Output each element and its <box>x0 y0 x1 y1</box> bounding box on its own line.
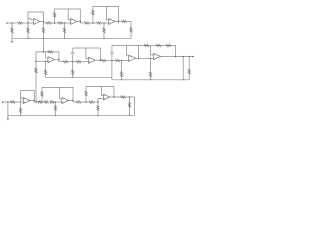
node rail-1 junction d <box>103 38 104 39</box>
resistor R7 (U3 feedback leg) <box>92 10 94 23</box>
resistor R30 (shunt at U8 in) <box>20 102 22 115</box>
node rail-1 junction a <box>27 38 28 39</box>
node N1 junction <box>11 22 13 24</box>
resistor R2 <box>46 22 51 24</box>
node N28 junction <box>85 101 87 103</box>
wire U2 feedback top <box>55 9 81 23</box>
node IN1 (row-1 input terminal) <box>6 22 8 24</box>
node N29 junction <box>97 101 99 103</box>
wire R4 to U2 <box>63 22 71 24</box>
resistor R27 (shunt) <box>150 58 152 80</box>
resistor R9 (shunt) <box>103 23 105 38</box>
resistor R9 zigzag <box>103 28 105 33</box>
node N20 junction <box>182 56 184 58</box>
wire N23 to R31 <box>34 101 37 103</box>
node N21 junction <box>188 56 190 58</box>
resistor R15 (in U4 feedback) <box>48 51 53 53</box>
op-amp U1 <box>34 18 40 24</box>
resistor R25 (feedback) <box>156 44 161 46</box>
wire N29 to U10 <box>98 99 103 102</box>
resistor R12 (shunt at N1) <box>11 23 13 38</box>
resistor R34 <box>50 101 54 103</box>
wire N16 shunt <box>111 61 113 78</box>
wire R1 to U1 <box>22 22 33 24</box>
wire U8 feedback box <box>21 91 35 102</box>
wire row-3 bottom rail <box>8 114 135 116</box>
node rail-3 junction b <box>55 115 56 116</box>
node rail-1 junction c <box>64 38 65 39</box>
wire U1 inv jog <box>28 18 34 20</box>
node rail-3 junction c <box>97 115 98 116</box>
resistor R18 <box>63 61 68 63</box>
wire R23 to U6 <box>120 60 129 62</box>
wire R36 to R38 <box>81 101 89 103</box>
node N3 junction (U1 out) <box>43 21 45 23</box>
resistor R8 <box>97 22 102 24</box>
wire row-3 end drop <box>134 97 136 115</box>
wire N23 step <box>33 101 35 103</box>
resistor R16 (link row2-row3) <box>35 61 37 102</box>
resistor R23 <box>115 59 120 61</box>
wire R31 to N25 <box>42 101 44 103</box>
resistor R41 (shunt) <box>129 97 131 115</box>
node N11 junction <box>35 61 37 63</box>
wire U7 inv input <box>151 46 154 55</box>
wire N15 to R21 <box>99 60 102 62</box>
resistor R12 zigzag <box>11 28 13 33</box>
node N17 junction (U6 out) <box>138 58 140 60</box>
node N10 junction (link arrives) <box>43 51 45 53</box>
resistor R11 zigzag <box>130 27 132 32</box>
node OUT2 terminal <box>192 56 194 58</box>
wire U1 feedback box <box>28 12 43 23</box>
op-amp U7 <box>153 53 161 59</box>
resistor R22 (shunt) <box>121 61 123 80</box>
op-amp U3 <box>109 18 115 24</box>
wire N22 shunt <box>7 102 9 115</box>
resistor R28 (shunt) <box>188 57 190 80</box>
resistor R3 zigzag <box>54 13 56 18</box>
wire U4 inv input <box>46 52 48 58</box>
resistor R39 (shunt) <box>97 102 99 115</box>
resistor R35 (shunt) <box>54 102 56 115</box>
node N4 junction <box>54 22 56 24</box>
node N8 junction <box>103 22 105 24</box>
capacitor C1 (in U5 feedback leg) <box>71 48 74 62</box>
wire U5 feedback top <box>73 48 101 60</box>
wire U9 inv input <box>60 87 62 99</box>
op-amp U8 <box>23 97 30 103</box>
wire U8 inv jog <box>21 97 24 99</box>
wire U4 output <box>55 59 59 61</box>
wire R38 to N29 <box>94 101 98 103</box>
op-amp U10 <box>103 94 109 100</box>
node N6 junction (U2 out) <box>80 21 82 23</box>
resistor R5 zigzag <box>63 28 65 33</box>
resistor R30 zigzag <box>20 108 22 113</box>
wire row-2 rail left <box>46 76 112 78</box>
node N5 junction <box>64 22 66 24</box>
op-amp U9 <box>62 97 69 103</box>
node N27 junction (U9 out) <box>72 100 74 102</box>
wire N13 to R18 <box>59 61 63 63</box>
resistor R38 <box>89 101 93 103</box>
resistor R10 <box>122 20 127 22</box>
resistor R13 zigzag <box>27 28 29 33</box>
wire U9 feedback top <box>42 87 73 100</box>
wire U10 feedback top <box>86 87 114 98</box>
resistor R17 (shunt) <box>45 61 47 77</box>
wire U8 output <box>30 100 34 102</box>
node N22 junction <box>7 101 8 103</box>
node rail-2 junction b <box>121 79 122 80</box>
resistor R32 (U9 feedback leg) <box>41 87 43 102</box>
resistor R13 (shunt at N2) <box>27 23 29 38</box>
ground arrow row-3 <box>7 115 10 120</box>
wire N15 step <box>99 59 101 61</box>
op-amp U6 <box>129 55 136 61</box>
resistor R14 zigzag <box>42 28 44 33</box>
wire U7 output <box>161 56 193 58</box>
node IN3 (row-3 input terminal) <box>2 101 4 103</box>
node N30 junction (U10 out) <box>113 96 115 98</box>
node rail-3 junction d <box>129 115 130 116</box>
resistor R5 (shunt) <box>64 23 66 38</box>
wire row-1 bottom rail <box>12 37 131 39</box>
wire U6 inv input <box>126 46 128 56</box>
wire N17 to feedback top <box>138 46 140 59</box>
resistor R17 zigzag <box>45 70 47 75</box>
wire U5 output <box>95 59 100 61</box>
resistor R20 <box>76 61 81 63</box>
wire U10 inv input <box>102 87 104 96</box>
node N16 junction <box>111 60 113 62</box>
wire N13 step <box>58 60 60 62</box>
capacitor C2 (in U6 feedback leg) <box>110 46 113 61</box>
resistor R1 <box>18 22 23 24</box>
wire U4 feedback top <box>36 52 59 61</box>
wire U2 output <box>77 20 81 22</box>
wire row-2 rail right <box>112 79 189 81</box>
resistor R14 (link row1-row2) <box>42 21 44 52</box>
wire U3 output <box>115 20 119 22</box>
wire U3 feedback top <box>93 7 119 24</box>
op-amp U2 <box>71 18 77 24</box>
wire row-2 rail jog <box>111 77 113 80</box>
wire R2 to R4 <box>51 22 58 24</box>
node rail-2 junction d <box>183 79 184 80</box>
resistor R21 <box>101 59 106 61</box>
wire U1 output <box>40 20 44 22</box>
wire U5 inv input <box>86 48 89 59</box>
resistor R7 zigzag <box>92 10 94 15</box>
resistor R31 <box>38 101 42 103</box>
resistor R3 (U2 feedback leg) <box>54 12 56 23</box>
op-amp U5 <box>88 57 95 63</box>
node rail-2 junction a <box>72 77 73 78</box>
resistor R28 zigzag <box>188 69 190 74</box>
node rail-2 junction c <box>150 79 151 80</box>
wire N3 to R2 <box>43 22 47 24</box>
op-amp U4 <box>48 57 55 63</box>
resistor R16 zigzag <box>35 68 37 73</box>
node N2 junction <box>27 22 29 24</box>
wire R18 to R20 <box>68 61 77 63</box>
node rail-1 junction b <box>43 38 44 39</box>
wire U9 output <box>69 100 73 102</box>
resistor R19 (shunt) <box>72 62 74 78</box>
wire U2 inv input <box>68 9 70 20</box>
node N14 junction <box>72 61 74 63</box>
node N12 junction <box>45 61 47 63</box>
resistor R6 <box>85 22 90 24</box>
wire N6 to R6 <box>80 22 85 24</box>
node N19 junction (U7 out) <box>175 56 177 58</box>
wire U6-U7 feedback top <box>112 46 176 57</box>
node N23 junction (U8 out) <box>34 100 36 102</box>
wire R20 to U5 <box>81 61 88 63</box>
wire U6 output <box>136 57 154 59</box>
wire R6 to R8 <box>89 22 96 24</box>
node N31 junction <box>129 96 131 98</box>
wire row-1 input <box>7 22 17 24</box>
wire row-3 input <box>3 101 24 103</box>
node rail-3 junction a <box>20 115 21 116</box>
resistor R36 <box>76 101 81 103</box>
wire U10 output <box>110 96 135 98</box>
resistor R32 zigzag <box>41 92 43 97</box>
resistor R4 <box>58 22 63 24</box>
resistor R39 zigzag <box>97 106 99 111</box>
wire N20 shunt <box>182 57 184 80</box>
resistor R37 zigzag <box>85 91 87 96</box>
node N26 junction <box>55 101 57 103</box>
node N18 junction <box>150 58 152 60</box>
resistor R22 zigzag <box>120 72 122 77</box>
resistor R26 (feedback) <box>166 44 171 46</box>
node N9 junction (U3 out) <box>118 21 120 23</box>
wire N27 step <box>72 101 74 103</box>
wire N9 to R10 <box>119 20 122 22</box>
wire row-2 input <box>36 60 48 62</box>
node N13 junction (U4 out) <box>58 59 60 61</box>
wire row-1 end drop <box>126 21 131 38</box>
resistor R40 <box>121 96 126 98</box>
wire U3 inv input <box>106 7 108 20</box>
resistor R37 (U10 feedback leg) <box>85 87 87 103</box>
resistor R33 <box>44 101 48 103</box>
node N16b junction <box>121 60 123 62</box>
resistor R24 (feedback) <box>144 44 149 46</box>
node N7 junction <box>92 22 94 24</box>
wire R21 to R23 <box>106 60 115 62</box>
node N15 junction (U5 out) <box>100 59 102 61</box>
node N25 junction <box>41 101 43 103</box>
wire N27 to R36 <box>73 101 76 103</box>
resistor R29 <box>10 101 15 103</box>
node N24 junction (link row2) <box>35 101 37 103</box>
resistor R27 zigzag <box>149 72 151 77</box>
resistor R19 zigzag <box>72 70 74 75</box>
resistor R41 zigzag <box>129 102 131 107</box>
ground arrow row-1 <box>11 38 14 43</box>
wire R34 to U9 <box>54 101 62 103</box>
resistor R35 zigzag <box>54 106 56 111</box>
wire R8 to U3 <box>101 22 108 24</box>
